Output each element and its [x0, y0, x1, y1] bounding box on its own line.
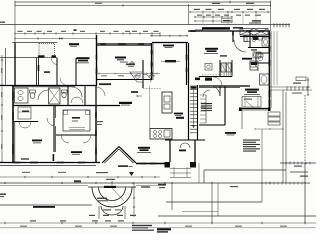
- window seg left wall c: [12, 144, 14, 154]
- closet wall y125: [199, 124, 225, 126]
- porch stair rail left: [98, 206, 100, 219]
- bath fixtures right column c: [250, 63, 256, 67]
- porch top wall y44: [97, 44, 152, 45]
- porch right wall x151.5: [152, 43, 154, 80]
- screen porch label: [115, 57, 128, 63]
- h line right y163: [280, 162, 316, 165]
- dim line y129 right: [255, 128, 283, 130]
- bath double door arcs: [71, 97, 83, 103]
- dark label x242 y58: [242, 58, 252, 60]
- deck vertical x242: [241, 110, 243, 129]
- entry post right: [190, 162, 196, 168]
- deck edge x204: [203, 170, 205, 183]
- dining label: [119, 102, 132, 106]
- exterior wall left x13: [12, 86, 14, 163]
- dimension line right wing y21: [195, 20, 232, 22]
- bath door arc: [38, 90, 48, 100]
- breakfast nook box: [205, 64, 212, 71]
- closet label: [22, 111, 29, 112]
- great room label: [137, 147, 151, 153]
- dimension labels above y33.5: [18, 31, 159, 32]
- toilet upper right: [252, 36, 257, 42]
- master bedroom label: [244, 89, 260, 95]
- bed label: [72, 121, 78, 122]
- door arc x96 wall: [96, 87, 105, 96]
- dimension extension line x188.5: [188, 5, 190, 25]
- dimension line top inner: [15, 4, 271, 6]
- label row above y223: [30, 220, 124, 221]
- dimension line right wing y12: [190, 11, 270, 25]
- porch right windows: [151, 50, 153, 77]
- closet hatch: [200, 95, 206, 123]
- wall y86 right wing: [199, 86, 250, 87]
- stair side wall x197.5: [197, 85, 199, 140]
- bath fixtures right column a: [253, 37, 259, 40]
- bedroom2 lower label: [71, 151, 82, 155]
- window sill blob a: [38, 55, 45, 57]
- tiny blob y29: [74, 29, 77, 31]
- labels above top line: [95, 3, 254, 4]
- wall x96 lower vertical: [95, 106, 97, 164]
- pwdr label: [131, 91, 138, 93]
- hall door arc: [203, 90, 210, 97]
- roof overhang line x274: [273, 31, 275, 85]
- pantry hatch strip: [224, 60, 232, 77]
- closet wall x225: [224, 86, 226, 125]
- dim label left room: [21, 158, 29, 159]
- deck upper line left: [0, 185, 166, 187]
- stair arrow: [192, 88, 195, 128]
- patio label: [225, 132, 236, 135]
- kitchen label: [174, 113, 183, 116]
- dimension line right wing y17: [195, 16, 232, 18]
- window sill blob b: [52, 55, 57, 57]
- closet room label: [44, 71, 50, 73]
- staircase rungs: [190, 86, 197, 133]
- master door arc: [210, 86, 220, 96]
- label right stair a: [293, 83, 301, 84]
- bedroom3 name label: [32, 140, 42, 144]
- deck vertical x218: [217, 183, 219, 216]
- stair lines right cluster: [270, 86, 312, 91]
- wall y135 right segment: [56, 134, 96, 136]
- kitchen door arc right: [213, 77, 222, 86]
- deck edge x199: [198, 163, 200, 183]
- dimension line top outer: [15, 1, 271, 3]
- entry door threshold: [179, 150, 186, 152]
- porch stair rail right: [124, 206, 126, 219]
- deck vertical x262 upper: [261, 129, 263, 183]
- dim label dark y180: [74, 180, 81, 182]
- window seg x96 b: [95, 130, 97, 136]
- ceiling fan icon: [130, 61, 135, 66]
- wall end blob b: [268, 108, 271, 112]
- dimension labels above y12: [194, 9, 265, 10]
- left edge label: [0, 194, 6, 198]
- curved porch inner arc: [99, 187, 126, 201]
- truss box right: [240, 29, 268, 36]
- porch label dark: [104, 186, 116, 188]
- wall y105.5: [13, 105, 120, 107]
- appliance box: [250, 61, 258, 70]
- washer dryer upper pair: [244, 36, 250, 42]
- roof line y57.5 left: [0, 57, 57, 59]
- basement label: [33, 206, 55, 208]
- skylight dotted square: [39, 44, 55, 58]
- label right stair b: [292, 93, 302, 94]
- entry top wall: [165, 139, 205, 141]
- label left top right wing: [195, 30, 203, 31]
- corner sink cabinet: [130, 72, 143, 82]
- deck label mid: [141, 186, 238, 188]
- curved porch step arc: [101, 206, 123, 215]
- label right y176: [300, 176, 308, 177]
- wall x36.5 vertical: [36, 58, 38, 86]
- closet vanity rect: [18, 107, 31, 119]
- porch left windows: [96, 55, 98, 73]
- room2 top wall y42.5: [152, 42, 188, 44]
- kitchen door arc: [143, 74, 151, 82]
- porch post line x5.5: [5, 48, 7, 86]
- vanity right column: [262, 38, 269, 46]
- double door arcs bedroom4: [19, 122, 31, 128]
- long line bottom y183: [0, 181, 310, 184]
- toilet mid right: [258, 54, 263, 61]
- label below bay: [118, 165, 133, 167]
- wall x57 vertical: [56, 58, 58, 86]
- roof line y42.5 left: [12, 42, 57, 44]
- hall arc left wing: [72, 87, 82, 97]
- kitchen counter blob: [176, 117, 184, 119]
- entry door arc: [180, 143, 190, 148]
- wall x76 vertical: [75, 58, 77, 85]
- window segs right wall: [269, 33, 271, 106]
- bottom dim labels row: [20, 226, 287, 227]
- counter blob a: [195, 78, 200, 81]
- property line right x305 lower: [304, 163, 306, 223]
- door arcs below y135: [61, 135, 91, 143]
- kitchen island: [162, 92, 172, 113]
- roof outline line y24.5: [0, 24, 290, 26]
- dimension line y38 with arrow: [15, 38, 96, 40]
- bath wall x68: [67, 86, 69, 106]
- counter dashed line kitchen: [143, 88, 161, 90]
- roof overhang line x277: [276, 31, 278, 85]
- stair top blob: [191, 87, 197, 89]
- arrow below bay: [129, 172, 134, 176]
- wall x143 vertical: [142, 60, 144, 88]
- bath wall x85: [84, 86, 86, 106]
- dimension line bottom y177: [0, 176, 160, 178]
- porch bottom dim: [95, 73, 160, 75]
- wall x53 lower window seg: [53, 154, 55, 161]
- exterior wall right x270: [269, 31, 271, 108]
- entry post left: [165, 162, 171, 168]
- kitchen top text cluster: [126, 64, 135, 67]
- dimension labels above y17: [197, 15, 261, 16]
- window segs bottom mid: [140, 163, 156, 165]
- door arc hall left: [47, 118, 55, 126]
- range hood icon: [161, 60, 180, 62]
- text block right of stairs: [201, 103, 212, 111]
- porch bottom wall y79.5: [97, 79, 152, 81]
- porch top tick and label: [106, 179, 115, 185]
- boxed label y19: [222, 19, 233, 23]
- deck step boxes right: [268, 112, 280, 125]
- top wall right wing: [188, 30, 270, 32]
- wall x15 left wing: [14, 43, 16, 86]
- label right y165: [294, 166, 302, 167]
- scale text block corner: [157, 228, 171, 232]
- master bath door arc: [250, 63, 258, 71]
- exterior wall bottom left: [0, 163, 100, 166]
- label row y172: [22, 172, 108, 173]
- closet label right: [251, 49, 257, 50]
- dim arrow master: [244, 99, 254, 109]
- room2 label: [163, 45, 174, 48]
- label above wall y85: [99, 83, 111, 85]
- window seg left wall b: [12, 112, 14, 120]
- wall y53 segment: [256, 53, 270, 64]
- porch left wall x97: [96, 35, 98, 85]
- bedroom2 door arc: [60, 78, 69, 86]
- fence break line right x305: [304, 95, 306, 163]
- bay window prow: [102, 147, 136, 164]
- porch under labels row2: [103, 209, 121, 210]
- deck post line x212: [211, 183, 213, 223]
- counter blob b: [205, 78, 212, 81]
- master bath tub: [260, 74, 270, 85]
- master furniture rect: [242, 97, 261, 108]
- wall y108 master bottom: [240, 109, 269, 111]
- range cabinet: [150, 129, 172, 140]
- porch sub labels: [97, 198, 108, 202]
- bath platform rect: [63, 110, 90, 131]
- deck edge x286: [285, 92, 287, 183]
- vanity sink oval b: [18, 96, 23, 100]
- vertical dimension line right x308: [307, 77, 309, 95]
- wall y85.5 main: [0, 85, 97, 87]
- label near top right a: [252, 20, 261, 21]
- entry wall right x195: [194, 140, 196, 162]
- entry side labels: [158, 184, 166, 188]
- wall y121.5: [13, 121, 38, 123]
- label right of beam: [233, 27, 243, 29]
- notes text block right: [243, 140, 260, 152]
- exterior wall bottom mid: [136, 163, 168, 165]
- dimension line left wing y33.5: [15, 32, 160, 34]
- left edge small labels: [97, 121, 103, 125]
- line bottom left y205: [0, 204, 92, 206]
- stair rect right top: [296, 77, 306, 81]
- closet door arc: [51, 58, 57, 65]
- wall y86.8 inner: [13, 86, 75, 88]
- bottom right text block: [132, 225, 154, 231]
- bath fixtures right column b: [253, 52, 261, 58]
- deck line y202: [166, 201, 262, 203]
- toilet b: [62, 90, 68, 98]
- dimension extension line right x270.5: [270, 2, 272, 32]
- porch step labels: [89, 215, 136, 216]
- wall x38.5 vertical: [38, 58, 40, 86]
- wall y36.5 under truss: [240, 36, 270, 37]
- entry step lines: [170, 167, 191, 178]
- dimension line garage top y35.8: [150, 35, 188, 37]
- interior wall x250 top: [249, 31, 251, 48]
- porch bottom dim labels: [101, 75, 155, 76]
- wall x96 bath segment: [95, 85, 97, 106]
- small arrow dining: [136, 95, 142, 97]
- wall y47.5 bath: [248, 47, 270, 49]
- deck post line x172: [171, 183, 173, 210]
- porch top line: [88, 186, 136, 188]
- wall y140 kitchen bottom: [172, 139, 199, 141]
- label 737: [69, 43, 79, 47]
- entry wall left x170: [169, 140, 171, 162]
- room2 right wall x186.5: [186, 43, 188, 85]
- porch radius line: [112, 188, 124, 201]
- tub: [49, 88, 61, 104]
- fixture upper right b: [258, 36, 263, 40]
- wall end blob a: [239, 108, 242, 112]
- curved porch outer arc: [92, 187, 132, 207]
- dimension extension line left x15: [14, 2, 16, 42]
- vanity counter: [15, 88, 29, 103]
- deck post line x262: [261, 183, 263, 202]
- top wall windows: [190, 30, 264, 32]
- laundry wall x220: [219, 60, 221, 77]
- dining kitchen divider: [149, 86, 151, 129]
- window seg x96 c: [95, 148, 97, 154]
- toilet a: [30, 90, 36, 99]
- vanity sink oval a: [18, 90, 23, 94]
- wall y63 master bath: [250, 62, 270, 64]
- window seg left wall a: [12, 92, 14, 100]
- inner wall line x14.8: [14, 122, 16, 162]
- deck step line y211.5: [182, 211, 218, 213]
- vertical dimension line left x2: [1, 55, 3, 162]
- wall x55 vertical: [54, 106, 56, 153]
- bottom border line y227.8: [0, 227, 316, 229]
- interior wall x233: [232, 31, 234, 42]
- great room label: [204, 48, 218, 54]
- deck line y216: [158, 215, 316, 217]
- window segs bottom wall: [13, 162, 85, 164]
- label near top right b: [249, 22, 261, 23]
- deck edge x283: [282, 90, 284, 183]
- porch top windows: [100, 43, 144, 45]
- bedroom2 label: [76, 57, 90, 63]
- laundry wall y76.5: [199, 75, 232, 77]
- header beam dark: [202, 27, 230, 29]
- label far left y21: [0, 22, 5, 23]
- deck edge y170: [204, 169, 286, 171]
- stair wall x188.5: [188, 43, 190, 140]
- washer dryer boxes: [221, 63, 232, 72]
- small label right of great room: [220, 55, 227, 56]
- deck rail ticks top right: [274, 23, 289, 27]
- dimension line bottom y223: [0, 222, 316, 224]
- window seg x96 a: [95, 112, 97, 118]
- laundry door arc: [234, 40, 246, 52]
- porch dim vertical x134: [133, 183, 135, 217]
- rotated dim labels left edge: [1, 68, 2, 149]
- h line right y172: [290, 171, 308, 173]
